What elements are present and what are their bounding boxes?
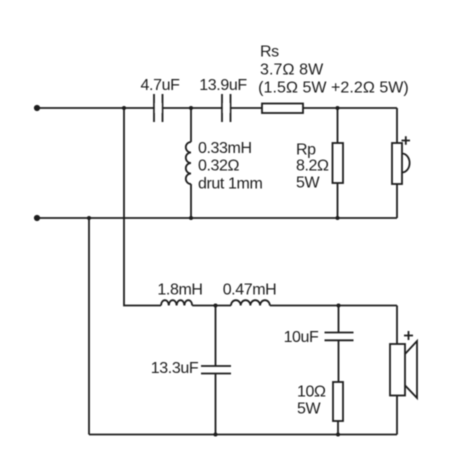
- svg-text:13.3uF: 13.3uF: [151, 360, 199, 377]
- svg-text:10Ω: 10Ω: [297, 384, 326, 401]
- resistor Rs body: [262, 104, 303, 114]
- wire top rail: [37, 107, 397, 109]
- inductor L1 0.33mH coil: [186, 142, 191, 184]
- svg-text:0.47mH: 0.47mH: [223, 281, 277, 298]
- inductor L3 0.47mH coil: [231, 300, 270, 305]
- svg-text:10uF: 10uF: [284, 329, 319, 346]
- speaker tweeter dome: [402, 154, 410, 173]
- wire tweeter drop: [396, 108, 398, 218]
- capacitor C1 4.7uF plates: [154, 94, 163, 122]
- capacitor C3 13.3uF branch wire: [215, 306, 217, 435]
- wire bottom rail woofer section: [89, 434, 397, 436]
- resistor Rp branch wire: [337, 108, 339, 218]
- capacitor C4 10uF plates: [325, 333, 354, 341]
- wire woofer drop: [396, 306, 398, 435]
- svg-text:13.9uF: 13.9uF: [199, 77, 247, 94]
- wire between coils: [192, 305, 231, 307]
- wire bottom rail of top section: [37, 217, 397, 219]
- svg-text:0.33mH: 0.33mH: [198, 140, 252, 157]
- capacitor C3 13.3uF plates: [201, 366, 231, 374]
- node junction x337 bottom rail: [336, 216, 340, 220]
- node junction x215 top of 13.3uF: [214, 304, 218, 308]
- svg-text:0.32Ω: 0.32Ω: [198, 158, 240, 175]
- svg-text:1.8mH: 1.8mH: [157, 281, 202, 298]
- inductor L1 0.33mH vertical branch wire: [190, 108, 192, 218]
- inductor L2 1.8mH coil: [161, 300, 192, 305]
- speaker woofer cone: [405, 341, 417, 398]
- svg-text:5W: 5W: [297, 401, 321, 418]
- wire mid drop x124 to woofer feed: [124, 108, 161, 306]
- node junction x215 bottom rail: [214, 433, 218, 437]
- capacitor C4 10uF branch wire: [338, 306, 340, 383]
- node junction x338 bottom rail: [336, 433, 340, 437]
- node junction x338 top of 10uF: [337, 304, 341, 308]
- svg-text:4.7uF: 4.7uF: [141, 77, 181, 94]
- capacitor C2 13.9uF plates: [222, 94, 231, 122]
- speaker woofer body: [390, 344, 405, 396]
- resistor Rp body: [333, 143, 344, 183]
- polarity plus woofer: [404, 331, 413, 340]
- speaker tweeter body: [392, 143, 402, 184]
- node junction top x337: [336, 106, 340, 110]
- svg-text:(1.5Ω 5W +2.2Ω 5W): (1.5Ω 5W +2.2Ω 5W): [258, 80, 409, 97]
- svg-text:5W: 5W: [296, 175, 320, 192]
- svg-text:drut 1mm: drut 1mm: [198, 175, 262, 192]
- svg-text:Rp: Rp: [296, 141, 316, 158]
- wire left drop to woofer section: [88, 218, 90, 435]
- node junction top-left x124: [122, 106, 126, 110]
- wire resistor R2 to bottom rail: [337, 421, 339, 435]
- node junction x191 bottom rail: [189, 216, 193, 220]
- terminal dot input +: [34, 105, 40, 111]
- polarity plus tweeter: [402, 136, 411, 145]
- svg-text:Rs: Rs: [260, 44, 279, 61]
- svg-text:8.2Ω: 8.2Ω: [296, 158, 329, 175]
- node junction top x191: [189, 106, 193, 110]
- wire woofer top feed: [270, 305, 397, 307]
- resistor R2 10ohm body: [333, 382, 343, 421]
- terminal dot input -: [34, 215, 40, 221]
- svg-text:3.7Ω 8W: 3.7Ω 8W: [260, 62, 324, 79]
- node junction x88 bottom rail: [87, 216, 91, 220]
